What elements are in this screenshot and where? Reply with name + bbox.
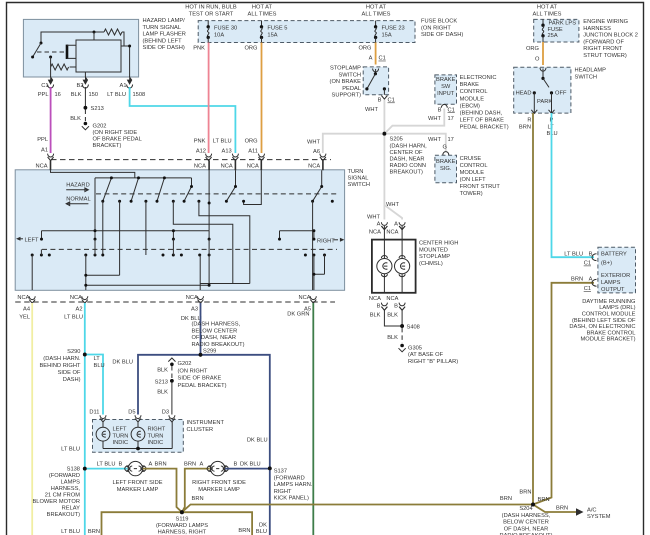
wire LT BLU headlamp P to DRL battery (552, 113, 595, 267)
svg-text:JUNCTION BLOCK 2: JUNCTION BLOCK 2 (583, 33, 638, 39)
DRL module text (601, 251, 630, 293)
DRL control module box (598, 247, 636, 293)
hazard flasher module box (23, 19, 138, 77)
svg-text:ELECTRONIC: ELECTRONIC (460, 75, 497, 81)
svg-text:(ON RIGHT: (ON RIGHT (178, 368, 208, 374)
svg-text:WHT: WHT (386, 202, 400, 208)
svg-text:BRN: BRN (556, 506, 568, 512)
splice S137 (268, 467, 313, 502)
svg-text:LEFT FRONT SIDE: LEFT FRONT SIDE (112, 480, 162, 486)
svg-text:CONTROL: CONTROL (460, 163, 488, 169)
svg-text:B: B (234, 461, 238, 467)
svg-text:STRUT TOWER): STRUT TOWER) (583, 53, 627, 59)
left turn indicator lamp (96, 422, 128, 449)
svg-text:MARKER LAMP: MARKER LAMP (117, 487, 159, 493)
svg-text:PNK: PNK (193, 46, 205, 52)
svg-text:ALL TIMES: ALL TIMES (362, 11, 391, 17)
svg-text:S213: S213 (91, 106, 104, 112)
svg-text:ORG: ORG (244, 46, 257, 52)
svg-text:BRACKET): BRACKET) (93, 143, 122, 149)
svg-text:BRN: BRN (538, 497, 550, 503)
svg-text:D11: D11 (89, 409, 99, 415)
svg-text:BRAKE: BRAKE (436, 159, 456, 165)
svg-text:(ON RIGHT: (ON RIGHT (421, 25, 451, 31)
wire ORG fuse5 to switch A11 (244, 43, 261, 155)
svg-text:BLK: BLK (157, 389, 168, 395)
svg-text:B: B (378, 98, 382, 104)
svg-text:16: 16 (55, 92, 61, 98)
svg-text:BLOWER MOTOR: BLOWER MOTOR (32, 499, 80, 505)
svg-text:G305: G305 (408, 346, 422, 352)
svg-text:STOPLAMP: STOPLAMP (419, 254, 450, 260)
svg-text:NCA: NCA (186, 295, 198, 301)
svg-text:DK GRN: DK GRN (287, 311, 309, 317)
switch wiper bus right (278, 229, 315, 240)
park lps fuse block (534, 19, 579, 42)
svg-text:D3: D3 (162, 409, 169, 415)
headlamp switch box (514, 67, 571, 113)
switch wiper bus left (40, 229, 211, 240)
svg-text:FUSE: FUSE (548, 27, 563, 33)
svg-text:A: A (377, 221, 381, 227)
svg-text:MODULE: MODULE (460, 96, 485, 102)
instrument cluster pin chevrons (100, 415, 175, 422)
svg-text:NCA: NCA (308, 164, 320, 170)
EBCM pin chevron (441, 104, 447, 107)
svg-text:S204: S204 (519, 506, 532, 512)
svg-text:PEDAL BRACKET): PEDAL BRACKET) (178, 383, 227, 389)
svg-text:LAMPS: LAMPS (601, 280, 621, 286)
turn signal switch label (348, 169, 371, 188)
svg-text:ORG: ORG (245, 139, 258, 145)
svg-text:(ON LEFT: (ON LEFT (460, 177, 487, 183)
splice S204 (499, 503, 552, 535)
svg-text:NCA: NCA (369, 229, 381, 235)
wires entering switch box top (51, 161, 323, 171)
svg-text:PARK LPS: PARK LPS (549, 20, 577, 26)
bottom connector pin chevrons (29, 296, 316, 303)
svg-text:BRN: BRN (192, 496, 204, 502)
svg-text:15A: 15A (382, 32, 392, 38)
svg-text:SIG.: SIG. (440, 166, 452, 172)
svg-text:BRN: BRN (519, 124, 531, 130)
svg-text:BLK: BLK (157, 368, 168, 374)
wire BRN S119 to S204 (long) (182, 496, 533, 512)
wire WHT S205 down to CHMSL pins (367, 134, 402, 228)
switch bottom internal wires (32, 255, 324, 290)
svg-text:BRN: BRN (184, 461, 196, 467)
switch internal dashed actuator line 1 (96, 193, 339, 195)
svg-text:RADIO BREAKOUT): RADIO BREAKOUT) (192, 342, 245, 348)
svg-text:NCA: NCA (194, 164, 206, 170)
svg-text:A: A (149, 461, 153, 467)
svg-text:WHT: WHT (428, 137, 442, 143)
svg-text:(FORWARD OF: (FORWARD OF (583, 39, 624, 45)
svg-text:BREAKOUT): BREAKOUT) (47, 512, 80, 518)
svg-text:LAMPS: LAMPS (61, 480, 81, 486)
wire LT BLU flasher A1 to switch A13 (107, 87, 235, 153)
svg-text:WHT: WHT (365, 107, 379, 113)
svg-text:C1: C1 (448, 107, 455, 113)
wire BRN right marker to S119 (182, 461, 210, 512)
svg-text:(DASH HARNESS,: (DASH HARNESS, (502, 513, 551, 519)
svg-text:RIGHT: RIGHT (274, 489, 292, 495)
svg-text:NCA: NCA (299, 295, 311, 301)
svg-text:HOT IN RUN, BULB: HOT IN RUN, BULB (185, 5, 237, 11)
stoplamp switch internals (365, 69, 387, 100)
svg-text:BLU: BLU (94, 363, 105, 369)
svg-text:O: O (535, 57, 540, 63)
svg-text:S119: S119 (176, 516, 189, 522)
svg-text:RIGHT FRONT SIDE: RIGHT FRONT SIDE (192, 480, 246, 486)
svg-text:BRN: BRN (238, 528, 250, 534)
wire BRN headlamp R to S204 (532, 113, 534, 505)
svg-text:S299: S299 (203, 349, 216, 355)
svg-text:LEFT OF BRAKE: LEFT OF BRAKE (460, 118, 505, 124)
svg-text:EXTERIOR: EXTERIOR (601, 273, 630, 279)
svg-text:PNK: PNK (194, 139, 206, 145)
wire WHT S205 to EBCM (384, 107, 454, 133)
svg-text:SWITCH: SWITCH (575, 74, 598, 80)
svg-text:(ON BRAKE: (ON BRAKE (330, 79, 362, 85)
svg-text:DASH, ON ELECTRONIC: DASH, ON ELECTRONIC (569, 324, 635, 330)
wire BRN S119 right branch (182, 512, 252, 535)
svg-text:CONTROL: CONTROL (460, 89, 488, 95)
junction dots overlay (83, 106, 535, 514)
svg-text:FUSE 30: FUSE 30 (214, 26, 237, 32)
svg-text:SIDE OF DASH): SIDE OF DASH) (143, 45, 185, 51)
fuse 5 (260, 21, 288, 43)
svg-text:ORG: ORG (526, 46, 539, 52)
svg-text:RIGHT “B” PILLAR): RIGHT “B” PILLAR) (408, 359, 458, 365)
svg-text:MODULE BRACKET): MODULE BRACKET) (581, 337, 636, 343)
svg-text:BRN: BRN (571, 277, 583, 283)
svg-text:BRAKE CONTROL: BRAKE CONTROL (587, 330, 636, 336)
svg-text:A4: A4 (23, 307, 30, 313)
DRL label text (569, 299, 636, 343)
svg-text:CENTER HIGH: CENTER HIGH (419, 241, 458, 247)
svg-text:FUSE 23: FUSE 23 (382, 26, 405, 32)
svg-text:OFF: OFF (555, 91, 567, 97)
svg-text:NCA: NCA (247, 164, 259, 170)
ground G202 (at cluster) (168, 358, 226, 389)
wire DK BLU S299 to S137 (201, 355, 270, 469)
svg-text:15A: 15A (267, 32, 277, 38)
top wire with resistor (41, 29, 124, 46)
svg-text:LAMPS (DRL): LAMPS (DRL) (599, 305, 635, 311)
svg-text:C1: C1 (584, 286, 591, 292)
svg-text:TURN: TURN (113, 433, 129, 439)
wire PNK fuse30 to switch A12 (193, 43, 208, 155)
svg-text:LEFT: LEFT (113, 427, 127, 433)
hot feed labels (185, 5, 561, 18)
CHMSL label (419, 241, 458, 267)
svg-text:G202: G202 (93, 124, 107, 130)
svg-text:LT BLU: LT BLU (97, 461, 116, 467)
wire BRN left marker to S119 (143, 461, 182, 512)
svg-text:BATTERY: BATTERY (601, 251, 627, 257)
svg-text:B: B (394, 303, 398, 309)
svg-text:(BEHIND DASH,: (BEHIND DASH, (460, 111, 503, 117)
CHMSL box (372, 240, 416, 293)
svg-text:TURN: TURN (348, 169, 364, 175)
hazard flasher label text (143, 18, 186, 51)
svg-text:RIGHT: RIGHT (148, 427, 166, 433)
wire WHT stoplamp B to S205 (383, 100, 385, 134)
wire WHT S205 to A6 (left) (307, 134, 384, 155)
svg-text:WHT: WHT (307, 140, 321, 146)
svg-text:DASH, NEAR: DASH, NEAR (390, 157, 425, 163)
svg-text:CRUISE: CRUISE (460, 156, 482, 162)
pin arrows at box bottom (48, 77, 131, 84)
switch contact blades row 1 (101, 176, 323, 202)
svg-text:INDIC: INDIC (148, 440, 164, 446)
svg-text:HAZARD: HAZARD (66, 183, 90, 189)
left front side marker lamp (112, 461, 162, 492)
fuse 23 (374, 21, 405, 43)
svg-text:(BEHIND LEFT: (BEHIND LEFT (143, 38, 183, 44)
svg-text:OF DASH, NEAR: OF DASH, NEAR (504, 526, 549, 532)
svg-text:(EBCM): (EBCM) (460, 103, 480, 109)
park lps fuse 25A (541, 19, 576, 42)
svg-text:TEST OR START: TEST OR START (189, 11, 234, 17)
svg-text:A/C: A/C (587, 508, 597, 514)
bottom connector NCA labels (17, 295, 310, 301)
CHMSL stems into box (384, 226, 402, 293)
svg-text:S290: S290 (67, 349, 80, 355)
wire BLK G202 to S213 (157, 366, 172, 379)
svg-text:TURN: TURN (148, 433, 164, 439)
top connector dashed line (51, 159, 331, 161)
svg-text:LAMP FLASHER: LAMP FLASHER (143, 32, 186, 38)
top connector pin chevrons (48, 154, 326, 161)
svg-text:DK BLU: DK BLU (240, 461, 261, 467)
svg-text:BEHIND RIGHT: BEHIND RIGHT (39, 363, 81, 369)
svg-text:D5: D5 (128, 409, 135, 415)
svg-text:10A: 10A (214, 32, 224, 38)
svg-text:NCA: NCA (369, 296, 381, 302)
wire PPL flasher C1 to switch A1 (37, 87, 61, 154)
svg-text:BLK: BLK (71, 92, 82, 98)
svg-text:STOPLAMP: STOPLAMP (330, 66, 361, 72)
wire DK BLU S137 down (256, 468, 270, 535)
DRL battery pin arc (592, 254, 597, 261)
svg-text:LT BLU: LT BLU (107, 92, 126, 98)
svg-text:BELOW CENTER: BELOW CENTER (192, 328, 238, 334)
svg-text:SIDE OF DASH): SIDE OF DASH) (421, 32, 463, 38)
svg-text:MARKER LAMP: MARKER LAMP (198, 487, 240, 493)
wire LT BLU switch A2 down to S290 and S138 (61, 303, 85, 535)
svg-text:150: 150 (89, 92, 99, 98)
splice S299 (192, 322, 245, 357)
bottom pin id labels (19, 307, 311, 322)
svg-text:(CHMSL): (CHMSL) (419, 261, 443, 267)
svg-text:21 CM FROM: 21 CM FROM (45, 493, 81, 499)
svg-text:CENTER OF: CENTER OF (390, 150, 424, 156)
stoplamp switch box (363, 67, 388, 95)
svg-text:C1: C1 (584, 261, 591, 267)
wire ORG park fuse to headlamp switch (526, 42, 543, 65)
svg-text:ALL TIMES: ALL TIMES (533, 11, 562, 17)
svg-text:KICK PANEL): KICK PANEL) (274, 496, 309, 502)
svg-text:LT: LT (94, 356, 101, 362)
cruise control brake sig box (435, 155, 457, 182)
svg-text:1508: 1508 (133, 92, 146, 98)
svg-text:A3: A3 (191, 307, 198, 313)
svg-text:(B+): (B+) (601, 261, 612, 267)
flasher pin labels C1 B2 A1 (41, 83, 126, 89)
wire BRN S204 to A/C system (533, 505, 611, 521)
svg-text:SW: SW (441, 84, 451, 90)
svg-text:(FORWARD: (FORWARD (274, 475, 305, 481)
cruise pin chevron (443, 152, 449, 155)
svg-text:NCA: NCA (386, 229, 398, 235)
svg-text:LT BLU: LT BLU (61, 529, 80, 535)
wire BRN DRL exterior lamps to S204 (533, 277, 594, 505)
switch lone contacts row 1 (118, 200, 334, 205)
svg-text:NCA: NCA (17, 295, 29, 301)
svg-text:PPL: PPL (37, 137, 48, 143)
svg-text:LT BLU: LT BLU (61, 446, 80, 452)
instrument cluster box (93, 420, 184, 453)
svg-text:25A: 25A (548, 33, 558, 39)
wire BLK S408 to G305 (387, 328, 402, 343)
svg-text:G202: G202 (178, 361, 192, 367)
svg-text:(DASH HARN,: (DASH HARN, (390, 143, 428, 149)
svg-text:LT BLU: LT BLU (64, 315, 83, 321)
svg-text:SIDE OF BRAKE: SIDE OF BRAKE (178, 376, 222, 382)
svg-text:HARNESS,: HARNESS, (51, 486, 81, 492)
svg-text:A: A (394, 221, 398, 227)
switch internal top feed wires (51, 170, 322, 230)
svg-text:DK: DK (259, 523, 267, 529)
svg-text:R: R (527, 118, 531, 124)
svg-text:HOT AT: HOT AT (537, 5, 558, 11)
svg-text:MOUNTED: MOUNTED (419, 247, 448, 253)
svg-text:DAYTIME RUNNING: DAYTIME RUNNING (582, 299, 635, 305)
svg-text:BRAKE: BRAKE (460, 82, 480, 88)
svg-text:BLK: BLK (370, 312, 381, 318)
svg-text:SWITCH: SWITCH (338, 72, 361, 78)
svg-text:ALL TIMES: ALL TIMES (248, 11, 277, 17)
svg-text:A2: A2 (76, 307, 83, 313)
svg-text:BELOW CENTER: BELOW CENTER (503, 520, 549, 526)
wire DK BLU switch A3 to S299 (200, 303, 202, 355)
svg-text:LT BLU: LT BLU (213, 139, 232, 145)
svg-text:S408: S408 (407, 325, 420, 331)
svg-text:S138: S138 (67, 467, 80, 473)
svg-text:HOT AT: HOT AT (252, 5, 273, 11)
svg-text:HARNESS, RIGHT: HARNESS, RIGHT (158, 530, 207, 535)
svg-text:A1: A1 (120, 83, 127, 89)
splice S290 (39, 349, 86, 383)
svg-text:RIGHT FRONT: RIGHT FRONT (583, 46, 622, 52)
svg-text:SIDE OF: SIDE OF (58, 370, 81, 376)
svg-text:G: G (443, 144, 447, 150)
CHMSL lamp left (377, 256, 392, 277)
CHMSL bottom pin labels (369, 296, 399, 318)
svg-text:BREAKOUT): BREAKOUT) (390, 170, 423, 176)
svg-text:(DASH HARNESS,: (DASH HARNESS, (192, 322, 241, 328)
fuse 30 (207, 21, 238, 43)
svg-text:YEL: YEL (19, 315, 30, 321)
svg-text:17: 17 (448, 116, 454, 122)
svg-text:DK BLU: DK BLU (112, 359, 133, 365)
svg-text:B: B (438, 107, 442, 113)
right turn indicator lamp (131, 422, 166, 449)
svg-text:OF BRAKE PEDAL: OF BRAKE PEDAL (93, 137, 142, 143)
LT BLU A13 labels (213, 139, 232, 155)
svg-text:A13: A13 (222, 148, 232, 154)
svg-text:PEDAL BRACKET): PEDAL BRACKET) (460, 125, 509, 131)
EBCM label (460, 75, 509, 131)
CHMSL bottom pin chevrons (381, 303, 405, 311)
svg-text:PARK: PARK (537, 99, 552, 105)
EBCM brake sw input text (436, 77, 456, 97)
svg-text:17: 17 (448, 137, 454, 143)
svg-text:B: B (119, 461, 123, 467)
wire WHT S205 to cruise brake sig (384, 134, 453, 152)
engine wiring harness junction block 2 label (583, 19, 638, 59)
wire DK BLU S299 to D5 (112, 355, 200, 416)
svg-text:FRONT STRUT: FRONT STRUT (460, 184, 501, 190)
svg-text:A1: A1 (41, 148, 48, 154)
svg-text:NCA: NCA (386, 296, 398, 302)
svg-text:C1: C1 (379, 56, 386, 62)
svg-text:S137: S137 (274, 469, 287, 475)
wire DK BLU right marker to S137 (225, 461, 270, 468)
svg-text:(BEHIND LEFT SIDE OF: (BEHIND LEFT SIDE OF (572, 318, 636, 324)
svg-text:CLUSTER: CLUSTER (187, 427, 214, 433)
svg-text:TOWER): TOWER) (460, 191, 483, 197)
svg-text:HEADLAMP: HEADLAMP (575, 68, 607, 74)
switch internal dashed actuator line 2 (42, 248, 337, 250)
splice S138 (32, 467, 86, 519)
svg-text:A: A (369, 56, 373, 62)
svg-text:SWITCH: SWITCH (348, 182, 371, 188)
svg-text:LEFT: LEFT (25, 237, 39, 243)
cruise module label (460, 156, 501, 197)
svg-text:NCA: NCA (70, 295, 82, 301)
svg-text:LT BLU: LT BLU (564, 251, 583, 257)
ground G305 (399, 344, 459, 365)
svg-text:ORG: ORG (358, 46, 371, 52)
svg-text:RADIO CONN: RADIO CONN (390, 163, 427, 169)
svg-text:MODULE: MODULE (460, 170, 485, 176)
splice S205 (383, 132, 428, 176)
svg-text:INSTRUMENT: INSTRUMENT (187, 420, 225, 426)
wire ORG fuse23 to stoplamp switch (358, 43, 385, 65)
svg-text:INDIC: INDIC (113, 440, 129, 446)
splice S119 (156, 510, 208, 535)
headlamp switch label (519, 68, 606, 138)
DRL exterior pin arc (592, 279, 597, 286)
svg-text:A11: A11 (248, 148, 258, 154)
relay body (76, 40, 121, 72)
svg-text:BRAKE: BRAKE (436, 77, 456, 83)
svg-text:TURN SIGNAL: TURN SIGNAL (143, 25, 181, 31)
flasher pin chevrons (48, 85, 133, 89)
svg-text:BLK: BLK (387, 312, 398, 318)
CHMSL lamp right (395, 256, 410, 277)
CHMSL pin chevrons top (381, 222, 405, 229)
svg-text:PEDAL: PEDAL (342, 86, 361, 92)
svg-text:PPL: PPL (38, 92, 49, 98)
BRN labels near S204 (519, 490, 549, 504)
svg-text:FUSE 5: FUSE 5 (267, 26, 287, 32)
turn signal switch box (15, 170, 344, 290)
stoplamp switch label (330, 66, 395, 114)
